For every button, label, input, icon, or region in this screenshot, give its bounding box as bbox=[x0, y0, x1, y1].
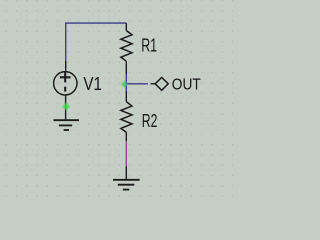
svg-text:R2: R2 bbox=[142, 111, 158, 131]
ground bbox=[54, 120, 80, 130]
port OUT bbox=[151, 77, 169, 90]
wire bbox=[66, 23, 127, 61]
wire bbox=[125, 141, 127, 166]
svg-text:R1: R1 bbox=[141, 36, 157, 56]
node dot bbox=[62, 103, 69, 111]
wire bbox=[126, 83, 148, 85]
resistor R2 bbox=[121, 91, 132, 141]
resistor R1 bbox=[121, 23, 132, 74]
ground bbox=[113, 166, 140, 189]
wire bbox=[125, 74, 127, 91]
svg-text:V1: V1 bbox=[83, 73, 102, 94]
svg-text:OUT: OUT bbox=[172, 77, 201, 94]
junction node OUT bbox=[121, 81, 128, 88]
voltage source V1 bbox=[54, 61, 77, 120]
